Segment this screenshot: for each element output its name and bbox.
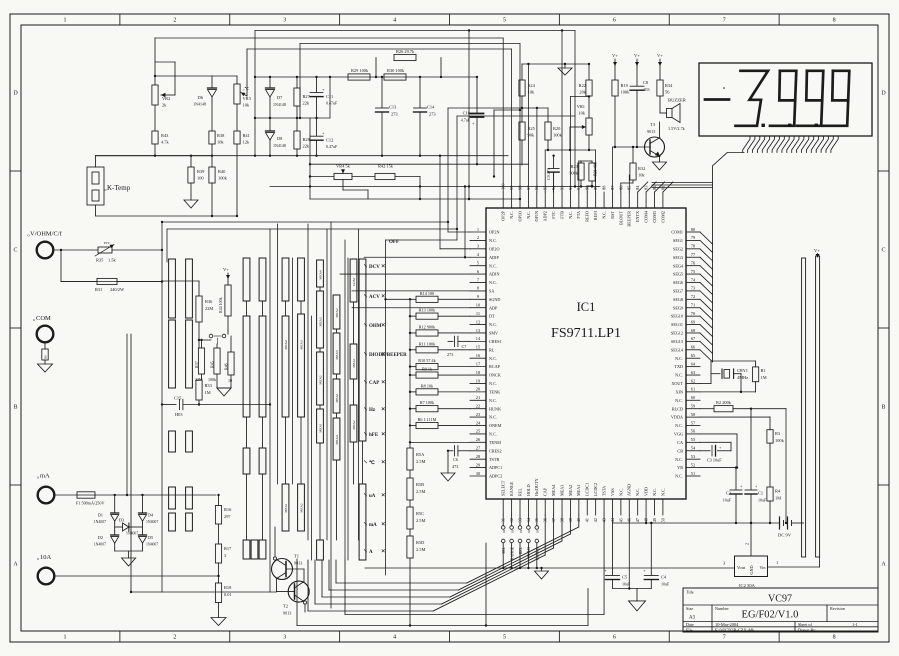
- capacitor C3 10uF: [700, 442, 731, 462]
- wire VR4 wiper: [343, 180, 368, 199]
- svg-text:ADIN: ADIN: [489, 272, 499, 277]
- svg-text:10-Mar-2004: 10-Mar-2004: [715, 622, 739, 627]
- capacitor C9 273: [546, 155, 559, 193]
- svg-text:R2 200k: R2 200k: [716, 400, 732, 405]
- svg-text:BEEPER: BEEPER: [627, 211, 632, 227]
- wire riser x440: [439, 156, 441, 249]
- wire switch column: [326, 229, 328, 540]
- node 127: [126, 494, 132, 593]
- svg-text:+: +: [472, 121, 475, 126]
- wire switch column: [166, 229, 168, 262]
- svg-text:22: 22: [476, 403, 480, 408]
- resistor R7 100k: [409, 400, 470, 412]
- svg-text:2k: 2k: [162, 103, 167, 108]
- svg-text:N.C.: N.C.: [489, 238, 497, 243]
- svg-text:MEA1: MEA1: [352, 358, 356, 368]
- wire riser p99: [511, 49, 513, 192]
- svg-text:1M: 1M: [205, 390, 211, 395]
- svg-text:10: 10: [476, 303, 481, 308]
- svg-text:273: 273: [447, 352, 453, 357]
- node rail: [161, 221, 163, 283]
- svg-text:N.C.: N.C.: [489, 415, 497, 420]
- svg-text:Drawn By:: Drawn By:: [798, 627, 817, 632]
- svg-text:9013: 9013: [283, 611, 291, 616]
- capacitor C15 H03: [161, 396, 271, 418]
- svg-text:CRES2: CRES2: [489, 448, 502, 453]
- svg-text:N.C.: N.C.: [489, 280, 497, 285]
- svg-text:VDD: VDD: [643, 487, 648, 496]
- svg-text:2: 2: [173, 18, 176, 24]
- wire V+ rail left bar: [802, 258, 806, 557]
- svg-text:R3: R3: [775, 431, 781, 436]
- regulator IC2 30A: [723, 523, 820, 588]
- svg-text:MEA2: MEA2: [335, 308, 339, 318]
- wire: [95, 205, 97, 216]
- node x494: [493, 109, 521, 178]
- wire T1 base to T2 collector: [286, 569, 304, 582]
- svg-text:N.C.: N.C.: [675, 356, 683, 361]
- svg-text:RL: RL: [489, 347, 495, 352]
- svg-text:LCDC2: LCDC2: [593, 483, 598, 496]
- trimmer VR1 10k: [570, 95, 592, 150]
- wire riser p92: [569, 97, 571, 193]
- svg-text:58: 58: [691, 412, 696, 417]
- svg-text:T1: T1: [294, 554, 300, 559]
- pushbutton REL: [518, 515, 523, 569]
- node bus dots: [650, 522, 787, 524]
- svg-text:+: +: [755, 484, 758, 489]
- wire TSTA run: [345, 515, 604, 615]
- svg-text:10k: 10k: [243, 103, 250, 108]
- wire XOUT net: [700, 361, 756, 383]
- svg-text:29: 29: [476, 462, 481, 467]
- svg-text:V/OHM/C/f: V/OHM/C/f: [30, 231, 63, 238]
- svg-text:1.5V/2.7k: 1.5V/2.7k: [668, 126, 686, 131]
- node 420-186: [419, 198, 421, 200]
- wire R21 bottom tap: [587, 185, 593, 187]
- node bridge top: [114, 494, 144, 496]
- svg-text:15: 15: [476, 345, 481, 350]
- svg-text:₂℃: ₂℃: [243, 86, 249, 91]
- svg-text:41: 41: [585, 518, 590, 522]
- svg-text:N.C.: N.C.: [675, 474, 683, 479]
- resistor R41 12k: [234, 104, 250, 217]
- svg-text:SEG9: SEG9: [673, 305, 683, 310]
- svg-text:2: 2: [477, 235, 479, 240]
- svg-text:13: 13: [476, 328, 481, 333]
- svg-text:MEA4: MEA4: [284, 340, 288, 350]
- svg-text:N.C.: N.C.: [489, 381, 497, 386]
- svg-text:SEG2: SEG2: [673, 246, 683, 251]
- svg-text:A: A: [369, 550, 373, 555]
- wire riser x494: [493, 110, 495, 177]
- V+ supply arrow: [612, 53, 618, 66]
- svg-text:o: o: [37, 475, 39, 480]
- svg-text:6: 6: [477, 269, 480, 274]
- battery DC 9V: [778, 517, 804, 538]
- svg-text:100k: 100k: [208, 377, 216, 382]
- pushbutton RANGE: [510, 515, 515, 569]
- switch contact: [209, 331, 228, 344]
- fuse F1 500mA/250V: [54, 492, 216, 506]
- wire net118 rail: [255, 117, 330, 119]
- wire VGG net: [700, 434, 738, 469]
- svg-text:1N4007: 1N4007: [126, 532, 138, 536]
- svg-text:N.C.: N.C.: [526, 211, 531, 219]
- trimmer VR2 2k: [152, 38, 175, 108]
- svg-text:C13: C13: [389, 105, 397, 110]
- svg-text:R13 100k: R13 100k: [419, 308, 436, 313]
- svg-text:RST: RST: [610, 211, 615, 219]
- svg-text:COM: COM: [36, 315, 51, 322]
- svg-text:o: o: [105, 187, 107, 192]
- svg-text:C14: C14: [427, 105, 435, 110]
- node net199 p98: [468, 198, 521, 200]
- svg-text:10uF: 10uF: [758, 498, 767, 503]
- svg-text:MEA1: MEA1: [576, 485, 581, 496]
- wire net116: [457, 115, 575, 117]
- svg-text:D3: D3: [119, 518, 124, 523]
- wire riser x448: [447, 108, 449, 232]
- wire buzzer to T3 collector: [659, 122, 661, 137]
- svg-text:N.C.: N.C.: [568, 211, 573, 219]
- svg-text:H03: H03: [175, 412, 183, 417]
- svg-text:20: 20: [476, 387, 481, 392]
- svg-text:R30 100k: R30 100k: [387, 68, 405, 73]
- wire riser x310: [309, 118, 311, 199]
- svg-text:19: 19: [476, 378, 481, 383]
- wire main V- bus: [613, 522, 780, 524]
- V+ feed R44: [223, 267, 230, 279]
- svg-text:16: 16: [476, 353, 481, 358]
- svg-text:2.5M: 2.5M: [416, 489, 425, 494]
- capacitor C12 0.47uF: [310, 118, 338, 157]
- wire T2 base from left: [131, 334, 277, 592]
- wire top rail 1: [255, 30, 575, 32]
- svg-text:67: 67: [691, 336, 696, 341]
- V+ supply arrow: [634, 53, 640, 66]
- svg-text:9: 9: [477, 294, 480, 299]
- svg-text:12: 12: [476, 319, 480, 324]
- svg-text:OP2P: OP2P: [501, 210, 506, 220]
- wire riser p90: [586, 186, 588, 192]
- wire T1 collector: [274, 527, 276, 557]
- svg-text:0.47uF: 0.47uF: [326, 101, 338, 106]
- svg-text:F1 500mA/250V: F1 500mA/250V: [76, 501, 105, 506]
- svg-text:℃: ℃: [369, 459, 375, 466]
- svg-text:CRY1: CRY1: [737, 368, 748, 373]
- resistor R38 10k: [209, 101, 225, 157]
- diode D3 1N4007: [115, 518, 143, 536]
- svg-text:42: 42: [593, 518, 598, 522]
- wire riser p100: [502, 38, 504, 192]
- wire x486 drop: [485, 543, 487, 627]
- svg-text:22k: 22k: [303, 144, 310, 149]
- svg-text:MEA4: MEA4: [551, 484, 556, 496]
- svg-text:1N4007: 1N4007: [146, 520, 158, 524]
- title block VC97 EG/F02/V1.0: [683, 588, 878, 632]
- svg-text:SEG5: SEG5: [673, 272, 683, 277]
- svg-text:80: 80: [691, 227, 696, 232]
- diode D2 1N4007: [94, 531, 119, 548]
- svg-text:ADPC1: ADPC1: [489, 465, 502, 470]
- wire XIN net: [700, 391, 756, 393]
- svg-text:100k: 100k: [553, 133, 563, 138]
- svg-text:C: C: [13, 248, 17, 254]
- svg-text:23: 23: [476, 412, 481, 417]
- resistor R18 0.01: [215, 575, 232, 618]
- resistor R9 1k: [409, 367, 470, 379]
- svg-text:N.C.: N.C.: [635, 488, 640, 496]
- svg-text:R34: R34: [665, 83, 673, 88]
- svg-text:56: 56: [665, 90, 670, 95]
- node x465: [447, 185, 466, 258]
- svg-text:R37: R37: [194, 361, 199, 368]
- svg-text:GND: GND: [749, 565, 754, 574]
- svg-text:10k: 10k: [638, 173, 645, 178]
- svg-text:BLOUT: BLOUT: [618, 211, 623, 225]
- svg-text:473: 473: [452, 464, 458, 469]
- svg-text:N.C.: N.C.: [652, 488, 657, 496]
- svg-text:VR1: VR1: [577, 104, 585, 109]
- capacitor C5 10uF: [604, 523, 631, 589]
- ground AGND: [629, 589, 646, 611]
- wire net222: [162, 221, 448, 223]
- wire net188: [270, 186, 600, 188]
- diode D4 1N4007: [139, 495, 159, 524]
- resistor R31 240/2W: [61, 278, 162, 292]
- svg-text:69: 69: [691, 319, 696, 324]
- svg-text:R45: R45: [210, 361, 215, 368]
- wire riser p86: [620, 183, 622, 192]
- wire switch column: [292, 258, 294, 484]
- resistor R5D 2.5M: [407, 536, 426, 558]
- svg-text:R29 100k: R29 100k: [351, 68, 369, 73]
- svg-text:100k: 100k: [775, 438, 785, 443]
- svg-text:MEA1: MEA1: [319, 423, 323, 433]
- svg-text:LCDC1: LCDC1: [585, 483, 590, 496]
- svg-text:49: 49: [652, 517, 657, 522]
- svg-text:28: 28: [476, 454, 481, 459]
- svg-text:ONEM: ONEM: [489, 423, 502, 428]
- svg-text:D8: D8: [277, 136, 283, 141]
- svg-text:88: 88: [601, 185, 606, 190]
- svg-text:1: 1: [776, 560, 778, 565]
- svg-text:MEA4: MEA4: [319, 270, 323, 280]
- svg-text:70: 70: [691, 311, 696, 316]
- svg-text:o: o: [33, 317, 35, 322]
- svg-text:RLCD: RLCD: [672, 406, 683, 411]
- svg-text:1: 1: [63, 18, 66, 24]
- wire p92 tap: [570, 96, 589, 98]
- transistor T2 9013: [283, 581, 309, 615]
- svg-text:52: 52: [691, 462, 695, 467]
- svg-text:100k: 100k: [218, 176, 228, 181]
- wire riser x255: [254, 31, 256, 156]
- wire riser p96: [536, 108, 538, 192]
- svg-text:2.5M: 2.5M: [416, 459, 425, 464]
- svg-text:OP2O: OP2O: [489, 246, 499, 251]
- svg-text:D4: D4: [148, 513, 154, 518]
- resistor R44 100k: [218, 279, 231, 331]
- svg-text:C4: C4: [661, 575, 667, 580]
- svg-text:VB: VB: [677, 465, 683, 470]
- node AGND: [628, 587, 630, 589]
- svg-text:1: 1: [477, 227, 479, 232]
- svg-text:66: 66: [691, 345, 696, 350]
- wire riser x457: [456, 116, 458, 240]
- resistor R42 15k: [352, 164, 420, 180]
- svg-text:C: C: [881, 248, 885, 254]
- transistor T1 9013: [272, 554, 303, 580]
- svg-text:SGND: SGND: [489, 297, 500, 302]
- svg-text:o: o: [28, 233, 30, 238]
- svg-text:55: 55: [691, 437, 696, 442]
- svg-text:COM: COM: [352, 278, 356, 286]
- svg-text:63: 63: [691, 370, 696, 375]
- capacitor C1 10uF: [745, 409, 767, 523]
- svg-text:N.C.: N.C.: [509, 211, 514, 219]
- svg-text:R35: R35: [96, 258, 104, 263]
- svg-text:C3 10uF: C3 10uF: [707, 458, 722, 463]
- terminal 10A: [37, 554, 54, 584]
- resistor R8 10k: [409, 383, 470, 395]
- diode D8 1N4148: [266, 118, 286, 157]
- resistor R23 500k: [569, 161, 584, 187]
- wire T3 base rail: [612, 146, 650, 148]
- ground bridge: [115, 548, 143, 566]
- capacitor C8 103: [630, 66, 650, 147]
- resistor R39 100: [188, 155, 205, 201]
- svg-text:EG/F02/V1.0: EG/F02/V1.0: [742, 610, 799, 621]
- resistor R26 29.7k: [375, 49, 442, 78]
- node VR2 top tie: [154, 75, 156, 77]
- wire: [95, 156, 97, 167]
- svg-text:REL: REL: [517, 488, 522, 496]
- wire pin10 ADP: [352, 307, 470, 309]
- svg-text:FTC: FTC: [551, 211, 556, 219]
- node R5 chain pin26: [409, 441, 411, 443]
- svg-text:+: +: [604, 568, 607, 573]
- svg-text:C5: C5: [622, 575, 628, 580]
- svg-text:240/2W: 240/2W: [110, 287, 125, 292]
- svg-text:3: 3: [283, 18, 286, 24]
- svg-text:25: 25: [476, 429, 481, 434]
- svg-text:103: 103: [643, 87, 650, 92]
- svg-text:SEG12: SEG12: [671, 331, 683, 336]
- svg-text:ACV: ACV: [369, 295, 380, 300]
- rotary switch contact slots: [169, 258, 366, 560]
- svg-text:SEL: SEL: [502, 546, 506, 553]
- svg-text:R41: R41: [243, 133, 250, 138]
- wire riser x469: [468, 31, 470, 200]
- svg-text:VDDA: VDDA: [671, 415, 683, 420]
- svg-text:1N4148: 1N4148: [273, 102, 286, 107]
- svg-text:79: 79: [691, 235, 696, 240]
- trimmer VR3 10k: [234, 49, 252, 108]
- wire display connection bundle: [713, 137, 839, 363]
- wire net199: [310, 198, 520, 200]
- wire switch column: [347, 258, 349, 560]
- svg-text:26: 26: [476, 437, 481, 442]
- svg-text:SELECT: SELECT: [501, 480, 506, 496]
- resistor R10 57.4k: [409, 358, 470, 370]
- svg-text:R46: R46: [224, 363, 229, 370]
- svg-text:SEG11: SEG11: [671, 322, 683, 327]
- svg-text:A: A: [13, 562, 18, 568]
- pushbutton Hz/Duty: [535, 515, 540, 569]
- svg-text:R8 10k: R8 10k: [421, 383, 434, 388]
- svg-text:OP2N: OP2N: [489, 230, 499, 235]
- wire slot column links: [247, 287, 363, 540]
- buzzer: [660, 98, 687, 132]
- svg-text:1: 1: [63, 635, 66, 641]
- svg-text:uA: uA: [369, 494, 376, 499]
- svg-text:D: D: [881, 91, 886, 97]
- resistor R4 1M: [767, 487, 781, 523]
- svg-text:DCV: DCV: [369, 265, 380, 270]
- svg-text:7: 7: [477, 277, 480, 282]
- wire switch column: [277, 224, 279, 484]
- svg-text:1M: 1M: [761, 375, 767, 380]
- svg-text:B: B: [13, 405, 17, 411]
- svg-text:4.7k: 4.7k: [161, 140, 169, 145]
- svg-text:N.C.: N.C.: [675, 373, 683, 378]
- wire net155 long rail: [96, 155, 509, 157]
- svg-text:100: 100: [197, 176, 204, 181]
- svg-text:N.C.: N.C.: [489, 322, 497, 327]
- svg-text:54: 54: [691, 446, 696, 451]
- svg-text:4: 4: [477, 252, 480, 257]
- svg-text:R5C: R5C: [416, 511, 424, 516]
- wire riser p97: [527, 64, 529, 192]
- svg-text:CRES1: CRES1: [489, 339, 502, 344]
- ground R39: [184, 200, 198, 208]
- svg-text:8: 8: [833, 635, 836, 641]
- svg-text:56: 56: [691, 429, 696, 434]
- svg-text:61: 61: [691, 387, 695, 392]
- resistor R22 20k: [579, 63, 592, 118]
- svg-text:74: 74: [691, 277, 696, 282]
- wire R14 to common: [386, 298, 411, 300]
- svg-text:V+: V+: [814, 248, 820, 253]
- svg-text:SEG6: SEG6: [673, 280, 683, 285]
- svg-text:N.C.: N.C.: [675, 423, 683, 428]
- svg-text:B: B: [881, 405, 885, 411]
- capacitor C7 273: [447, 336, 470, 357]
- wire switch column: [269, 229, 271, 592]
- svg-text:E:\VICTOR-CZX.ddb: E:\VICTOR-CZX.ddb: [715, 627, 755, 632]
- svg-text:SMV: SMV: [489, 331, 498, 336]
- svg-text:ADPC2: ADPC2: [489, 474, 502, 479]
- svg-text:ONCK: ONCK: [489, 373, 501, 378]
- svg-text:T2: T2: [283, 604, 289, 609]
- svg-text:8: 8: [477, 286, 480, 291]
- svg-text:R7 100k: R7 100k: [420, 400, 435, 405]
- svg-text:+: +: [322, 131, 325, 136]
- svg-text:10k: 10k: [217, 140, 224, 145]
- svg-text:o: o: [37, 556, 39, 561]
- wire AGND drop: [628, 515, 630, 589]
- svg-text:R21 40k: R21 40k: [593, 162, 598, 176]
- resistor R30 100k: [384, 68, 406, 80]
- wire R36 to contact: [199, 339, 211, 341]
- svg-text:D6: D6: [198, 95, 204, 100]
- resistor R19 100k: [612, 66, 630, 147]
- svg-text:FS9711.LP1: FS9711.LP1: [551, 326, 621, 341]
- svg-text:CA: CA: [677, 440, 683, 445]
- svg-text:R6 1.111M: R6 1.111M: [418, 417, 437, 422]
